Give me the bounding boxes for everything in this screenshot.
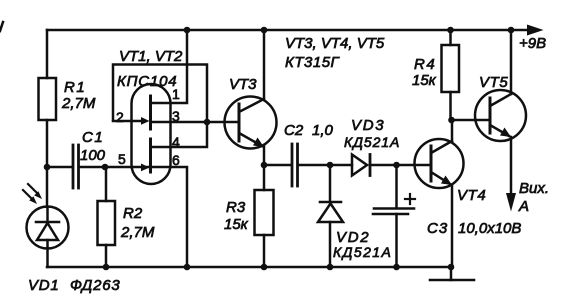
node gate2 arrow [141, 164, 150, 172]
svg-text:VD3: VD3 [351, 117, 385, 134]
svg-text:10,0x10В: 10,0x10В [458, 220, 521, 237]
node source1/drain2 junction [204, 119, 211, 126]
svg-text:2,7M: 2,7M [61, 95, 96, 112]
node VD2 junction [327, 162, 334, 169]
svg-text:VT1, VT2: VT1, VT2 [119, 48, 183, 65]
node R1/C1/VD1 junction [44, 164, 51, 171]
svg-text:R1: R1 [64, 79, 86, 96]
svg-text:+9В: +9В [519, 35, 546, 52]
node R4 rail junction [447, 27, 454, 34]
wire gate1 lead [113, 120, 144, 123]
svg-text:2,7M: 2,7M [120, 224, 155, 241]
svg-text:C3: C3 [427, 220, 448, 237]
wire source2 to ground [151, 167, 188, 267]
svg-text:VD1: VD1 [28, 277, 60, 294]
wire gate1 box route [113, 65, 207, 148]
node gate1 arrow [141, 117, 150, 125]
wire VT4 emitter to ground [451, 185, 454, 267]
svg-text:VT3, VT4, VT5: VT3, VT4, VT5 [285, 35, 385, 52]
label VD3 [344, 117, 400, 150]
label C3 plus [405, 194, 415, 204]
svg-text:3: 3 [172, 108, 180, 124]
transistor VT3 [225, 97, 277, 149]
svg-text:6: 6 [172, 152, 180, 168]
node VD2 ground junction [327, 264, 334, 271]
photodiode VD1 [27, 207, 69, 249]
resistor R1 [39, 78, 57, 120]
wire C2 to VD3 [299, 164, 352, 167]
node R4/VT4/VT5 junction [448, 117, 455, 124]
wire VT3 emitter down [263, 146, 266, 190]
wire left rail top corner [46, 30, 49, 78]
svg-text:15к: 15к [224, 216, 249, 233]
node VT5 collector rail junction [508, 27, 515, 34]
wire to VT5 base [452, 119, 491, 122]
transistor VT4 [415, 139, 464, 188]
svg-text:ФД263: ФД263 [70, 277, 121, 294]
diode VD3 [352, 155, 370, 176]
node C3 junction [393, 162, 400, 169]
label C3 value [427, 220, 521, 237]
wire source1 to VT3 base [151, 121, 240, 124]
node drain1 top rail junction [184, 27, 191, 34]
wire R2 bottom lead [105, 245, 108, 267]
wire output A [510, 137, 513, 194]
wire C3 bottom lead [395, 214, 398, 267]
node output arrow [506, 193, 516, 212]
transistor VT2 channel bar [149, 139, 152, 172]
node VT4 emitter ground junction [448, 264, 455, 271]
wire emitter row to C2 [264, 164, 290, 167]
svg-text:КД521А: КД521А [333, 244, 392, 260]
svg-text:C2: C2 [284, 122, 304, 139]
wire VD3 to VT4 base [370, 164, 431, 167]
wire VT4 collector up [451, 120, 454, 141]
svg-text:C1: C1 [82, 129, 104, 146]
wire R3 bottom [263, 235, 266, 267]
svg-text:100: 100 [80, 147, 106, 164]
wire VD1 to ground rail corner [46, 248, 49, 267]
wire left rail to photodiode [46, 167, 49, 207]
svg-text:5: 5 [118, 151, 126, 167]
svg-text:VT5: VT5 [479, 74, 508, 91]
wire C1 to gate2 [81, 166, 150, 169]
transistor VT5 [475, 90, 526, 141]
node top rail arrow +9V [527, 25, 544, 36]
svg-text:КПС104: КПС104 [117, 73, 177, 90]
wire node to C1 [47, 166, 71, 169]
svg-text:А: А [518, 198, 529, 215]
svg-text:КД521А: КД521А [344, 134, 400, 150]
label C1 value [80, 129, 106, 164]
node R2 ground junction [103, 264, 110, 271]
node VT3 emitter junction [261, 162, 268, 169]
svg-text:R3: R3 [226, 199, 246, 216]
capacitor C3 [373, 209, 414, 215]
wire ground bottom rail [47, 266, 451, 269]
svg-text:1: 1 [172, 86, 180, 102]
node C3 ground junction [393, 264, 400, 271]
label C2 value [284, 122, 334, 139]
wire +9V top rail [47, 29, 528, 32]
wire R1 bottom to node [46, 120, 49, 167]
wire R4 top lead [449, 30, 452, 45]
label R3 value [224, 199, 249, 233]
label transistor types [285, 35, 385, 71]
svg-text:R4: R4 [414, 56, 436, 73]
svg-text:R2: R2 [123, 205, 143, 222]
node C1/R2/gate junction [102, 164, 109, 171]
resistor R2 [98, 201, 116, 245]
capacitor C1 [73, 145, 79, 188]
label VD1 [28, 277, 121, 294]
wire R2 top lead [105, 167, 108, 201]
diode VD2 [318, 165, 343, 267]
svg-text:Вих.: Вих. [519, 180, 549, 197]
svg-text:2: 2 [116, 109, 124, 125]
wire C3 top lead [395, 165, 398, 208]
label VD2 [333, 229, 392, 260]
svg-text:4: 4 [172, 134, 180, 150]
svg-text:VT3: VT3 [229, 76, 257, 93]
svg-text:КТ315Г: КТ315Г [285, 54, 341, 71]
wire VT3 collector to rail [263, 30, 266, 99]
resistor R4 [442, 45, 460, 92]
node VT3 collector rail junction [261, 27, 268, 34]
label output [518, 180, 549, 215]
wire VT5 collector to rail [510, 30, 513, 94]
light arrows into VD1 [23, 184, 42, 204]
label R4 value [412, 56, 437, 89]
wire drain1 to +9V [151, 30, 188, 103]
node R3 ground junction [261, 264, 268, 271]
svg-text:VT4: VT4 [457, 187, 486, 204]
ground symbol [430, 267, 474, 280]
capacitor C2 [292, 144, 298, 186]
label R1 value [61, 79, 96, 112]
transistor VT1 channel bar [149, 96, 152, 129]
svg-text:1,0: 1,0 [312, 122, 334, 139]
wire R4 bottom lead [449, 92, 452, 120]
label R2 value [120, 205, 155, 241]
scan artifact left edge [0, 22, 3, 31]
node source2 ground junction [184, 264, 191, 271]
transistor VT1 VT2 body [132, 84, 171, 184]
svg-text:15к: 15к [412, 72, 437, 89]
resistor R3 [255, 190, 274, 235]
